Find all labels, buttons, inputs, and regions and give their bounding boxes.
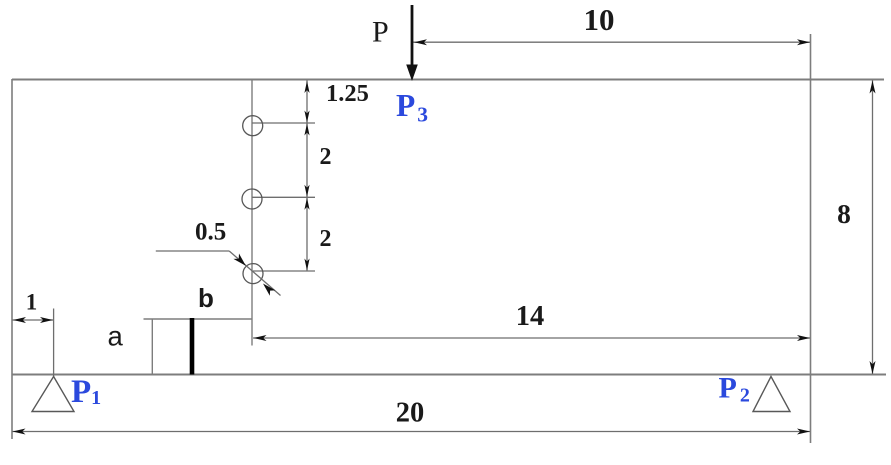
svg-text:0.5: 0.5 [195, 219, 226, 246]
svg-text:P3: P3 [396, 88, 428, 127]
svg-text:14: 14 [516, 301, 545, 332]
svg-text:b: b [198, 283, 214, 313]
svg-text:2: 2 [320, 226, 332, 252]
svg-text:1.25: 1.25 [326, 80, 369, 107]
svg-text:P1: P1 [71, 374, 101, 410]
svg-text:10: 10 [584, 2, 615, 37]
svg-text:2: 2 [320, 144, 332, 170]
svg-text:8: 8 [837, 198, 851, 229]
svg-text:a: a [108, 321, 124, 352]
svg-text:P: P [372, 16, 389, 49]
svg-text:1: 1 [26, 290, 38, 315]
svg-text:P2: P2 [719, 372, 750, 407]
svg-text:20: 20 [396, 398, 425, 429]
